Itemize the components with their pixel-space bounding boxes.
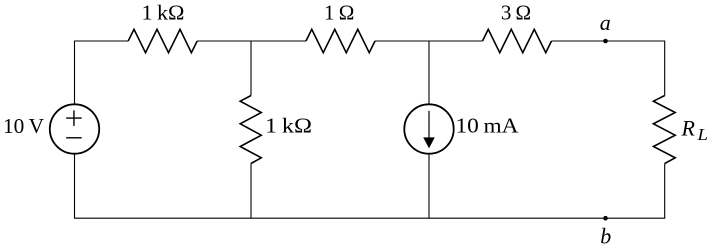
label node a <box>600 10 611 35</box>
resistor R1 1 kOhm top-left zigzag <box>128 29 197 52</box>
label 10 V <box>3 114 44 138</box>
wire current source to bottom <box>428 154 430 219</box>
resistor R4 1 kOhm vertical zigzag <box>240 96 261 164</box>
wire junction2 to current source <box>428 41 430 105</box>
svg-text:b: b <box>600 224 611 249</box>
wire between 1ohm and 3ohm <box>375 40 483 42</box>
wire between R1 and 1ohm <box>197 40 306 42</box>
svg-text:10 mA: 10 mA <box>456 114 520 138</box>
current source arrow <box>423 111 435 149</box>
svg-text:1 Ω: 1 Ω <box>324 1 354 25</box>
wire left rail bottom and bottom rail and right rail bottom <box>75 154 665 219</box>
current source I1 circle <box>404 104 453 153</box>
label 1 kOhm (R4 vertical) <box>265 114 312 138</box>
wire top-left segment with corner <box>75 41 129 105</box>
svg-text:a: a <box>600 10 611 35</box>
node a dot <box>603 39 608 44</box>
label 3 Ohm (R3) <box>501 1 531 25</box>
voltage source V1 circle <box>50 104 99 153</box>
label 1 kOhm (R1) <box>142 1 185 25</box>
label node b <box>600 224 611 249</box>
wire 3ohm to node a and right corner <box>552 41 665 96</box>
label 1 Ohm (R2) <box>324 1 354 25</box>
label RL <box>681 116 709 145</box>
svg-text:1 kΩ: 1 kΩ <box>142 1 185 25</box>
svg-text:10 V: 10 V <box>3 114 44 138</box>
wire vertical 1k resistor to bottom <box>250 164 252 219</box>
resistor RL vertical zigzag <box>653 96 675 164</box>
svg-text:3 Ω: 3 Ω <box>501 1 531 25</box>
svg-text:R: R <box>681 116 696 141</box>
label 10 mA <box>456 114 520 138</box>
svg-text:1 kΩ: 1 kΩ <box>265 114 312 138</box>
wire junction1 to vertical 1k resistor <box>250 41 252 96</box>
svg-text:L: L <box>696 125 708 144</box>
resistor R3 3 Ohm zigzag <box>483 29 552 52</box>
voltage source minus sign <box>66 137 82 139</box>
node b dot <box>603 216 608 221</box>
resistor R2 1 Ohm zigzag <box>306 29 375 52</box>
voltage source plus sign <box>66 110 82 126</box>
